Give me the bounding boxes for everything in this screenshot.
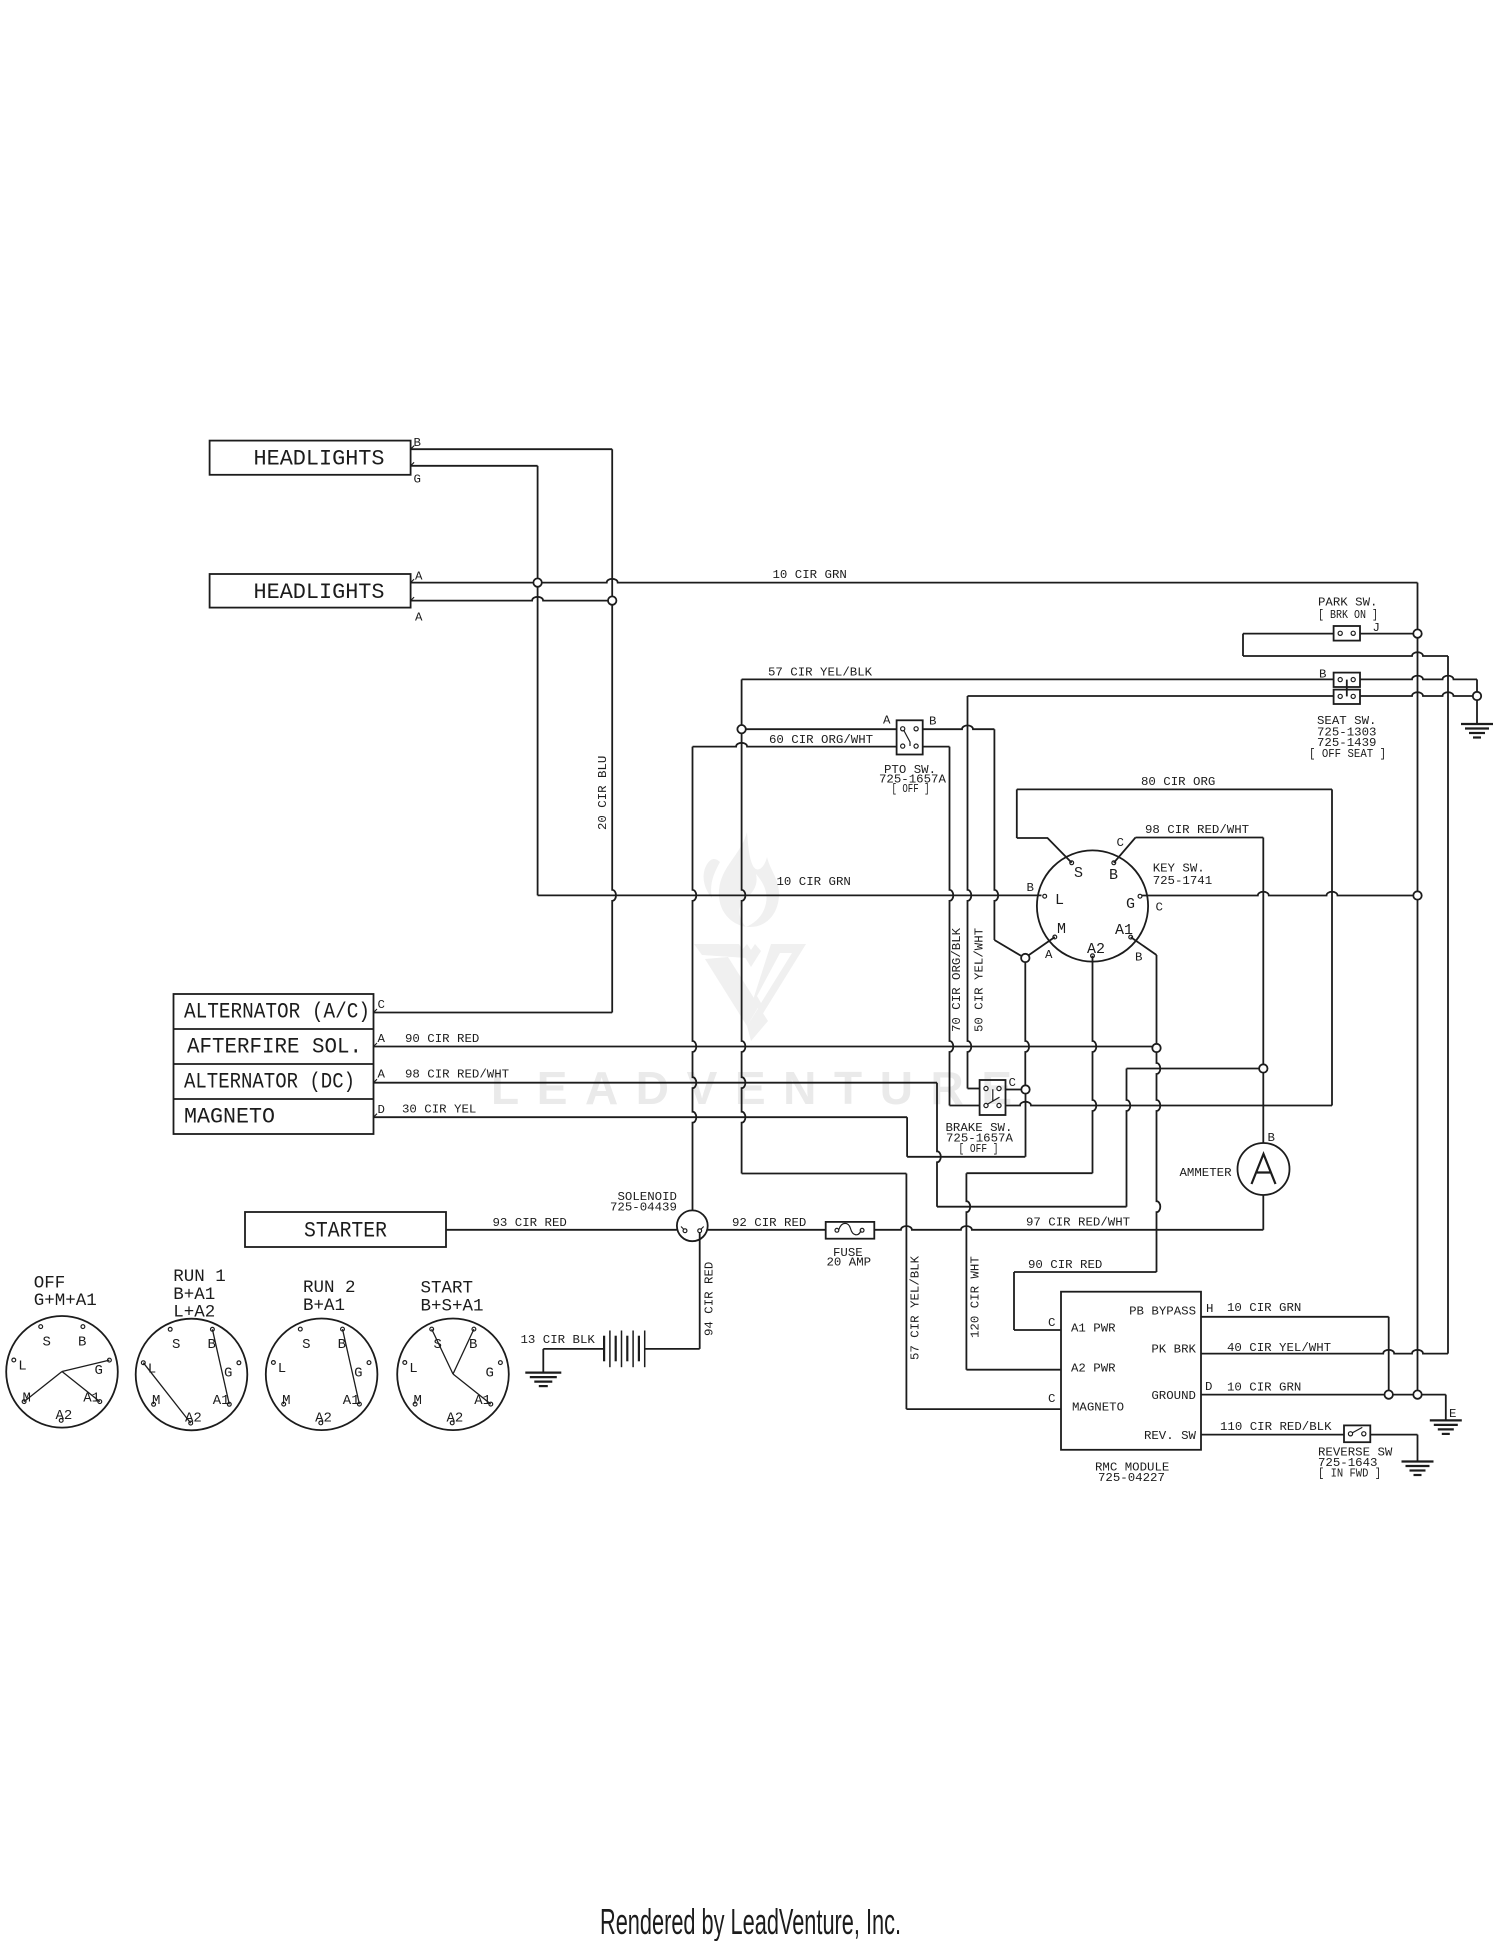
svg-text:GROUND: GROUND	[1151, 1389, 1196, 1403]
svg-text:10 CIR GRN: 10 CIR GRN	[773, 568, 847, 582]
wire PTO lower-left lead (hop x741.6)	[693, 743, 897, 747]
svg-text:M: M	[282, 1393, 290, 1409]
key position diagram START	[397, 1319, 509, 1431]
wire 57 CIR YEL/BLK lower drop	[905, 1174, 907, 1410]
svg-text:L: L	[18, 1359, 26, 1375]
svg-text:L+A2: L+A2	[173, 1303, 215, 1323]
wire 50 CIR YEL/WHT riser	[968, 696, 972, 1089]
node J6	[1473, 692, 1481, 700]
svg-text:G+M+A1: G+M+A1	[34, 1291, 97, 1311]
wire 98 riser x1126.5	[1127, 1069, 1131, 1207]
seat switch SEAT SW.	[1334, 673, 1360, 687]
wire reverse ground drop	[1417, 1435, 1419, 1462]
node J8	[1152, 1044, 1160, 1052]
svg-text:L: L	[1055, 892, 1064, 909]
wire 70 CIR ORG/BLK riser	[950, 747, 954, 1106]
svg-text:725-04227: 725-04227	[1098, 1471, 1165, 1485]
wire 10 CIR GRN top run	[542, 579, 1418, 583]
wire 30 CIR YEL link under brake	[907, 1156, 1025, 1158]
svg-text:S: S	[1074, 865, 1083, 882]
wire park switch left drop	[1242, 634, 1244, 656]
svg-text:D: D	[378, 1103, 385, 1117]
node J12	[1021, 1085, 1029, 1093]
node J10	[1413, 1390, 1421, 1398]
svg-text:93 CIR RED: 93 CIR RED	[493, 1216, 567, 1230]
wire headlight1 pin B	[411, 448, 613, 450]
node J11	[1385, 1390, 1393, 1398]
svg-text:725-04439: 725-04439	[610, 1201, 677, 1215]
svg-text:A2: A2	[315, 1410, 332, 1426]
svg-text:57 CIR YEL/BLK: 57 CIR YEL/BLK	[909, 1255, 923, 1360]
svg-text:94 CIR RED: 94 CIR RED	[703, 1262, 717, 1336]
wire 90 CIR RED run	[374, 1046, 1153, 1048]
brake switch BRAKE SW. 725-1657A [OFF]	[980, 1080, 1006, 1115]
svg-text:60 CIR ORG/WHT: 60 CIR ORG/WHT	[769, 733, 873, 747]
svg-text:S: S	[43, 1334, 51, 1350]
node J3	[1413, 629, 1421, 637]
wire solenoid feed riser x692.5	[693, 747, 697, 1211]
svg-text:50 CIR YEL/WHT: 50 CIR YEL/WHT	[973, 928, 987, 1032]
wire 60 CIR ORG/WHT to PTO A	[746, 728, 897, 730]
svg-text:E: E	[1449, 1407, 1456, 1421]
svg-text:A: A	[415, 570, 423, 584]
svg-text:97 CIR RED/WHT: 97 CIR RED/WHT	[1026, 1216, 1130, 1230]
svg-text:10 CIR GRN: 10 CIR GRN	[1227, 1381, 1301, 1395]
wire 80 CIR ORG	[1017, 788, 1332, 790]
svg-text:G: G	[486, 1365, 494, 1381]
svg-text:70 CIR ORG/BLK: 70 CIR ORG/BLK	[950, 927, 964, 1032]
wire 90 CIR RED drop to A1 PWR	[1013, 1272, 1015, 1330]
key position diagram RUN 1	[136, 1319, 248, 1431]
wire MAGNETO lead	[906, 1408, 1061, 1410]
wire PTO B lead (hop x967.5)	[923, 725, 995, 729]
ground ground E	[1430, 1419, 1462, 1421]
svg-text:20 AMP: 20 AMP	[827, 1256, 872, 1270]
svg-text:G: G	[224, 1366, 232, 1382]
park switch PARK SW. [BRK ON]	[1334, 626, 1360, 641]
svg-text:G: G	[414, 473, 421, 487]
svg-text:L: L	[409, 1361, 417, 1377]
RMC module 725-04227	[1061, 1292, 1201, 1450]
wire REV SW lead	[1201, 1434, 1344, 1436]
wire key A1 diagonal	[1131, 937, 1157, 955]
ammeter	[1238, 1143, 1290, 1195]
svg-text:C: C	[1009, 1076, 1016, 1090]
wire 13 CIR BLK ground drop	[542, 1349, 544, 1373]
svg-text:10 CIR GRN: 10 CIR GRN	[1227, 1301, 1301, 1315]
node J9	[1259, 1064, 1267, 1072]
node J1	[533, 578, 541, 586]
wire ammeter bottom lead	[1262, 1195, 1264, 1230]
svg-text:Rendered by LeadVenture, Inc.: Rendered by LeadVenture, Inc.	[600, 1901, 901, 1941]
svg-text:ALTERNATOR (A/C): ALTERNATOR (A/C)	[184, 1000, 370, 1025]
wire headlight1 pin B drop	[611, 449, 613, 596]
svg-text:HEADLIGHTS: HEADLIGHTS	[254, 580, 385, 605]
svg-text:[ IN FWD ]: [ IN FWD ]	[1318, 1467, 1381, 1481]
svg-text:A: A	[378, 1068, 386, 1082]
wire PTO-B drop diagonal	[994, 940, 1022, 957]
wire 93 CIR RED	[446, 1229, 677, 1231]
wire A2 PWR lead	[966, 1369, 1061, 1371]
svg-text:H: H	[1206, 1302, 1213, 1316]
wire A1 bus x1156.5	[1157, 1052, 1161, 1272]
wire 92 CIR RED	[708, 1229, 826, 1231]
svg-text:A2 PWR: A2 PWR	[1071, 1362, 1116, 1376]
wire 98 CIR RED/WHT top	[1136, 837, 1264, 839]
svg-text:B: B	[1135, 951, 1142, 965]
wire GROUND lead b	[1393, 1394, 1413, 1396]
wire 20 CIR BLU vertical	[612, 605, 616, 1013]
svg-text:M: M	[152, 1393, 160, 1409]
wire A1 drop	[1156, 955, 1158, 1044]
wire GROUND lead a	[1201, 1394, 1385, 1396]
wire 57 CIR YEL/BLK link	[742, 1173, 907, 1175]
svg-text:A1: A1	[1115, 922, 1133, 939]
node J5	[1413, 891, 1421, 899]
wire lead to key S	[1017, 838, 1072, 863]
wire 30 CIR YEL corner drop	[906, 1117, 908, 1157]
wire park switch left lead	[1243, 633, 1334, 635]
wire right bus x1417.5 (park to keyline)	[1417, 638, 1419, 892]
svg-text:A1 PWR: A1 PWR	[1071, 1322, 1116, 1336]
wire headlight2 pin A upper	[411, 582, 534, 584]
wire PB BYPASS lead	[1201, 1316, 1389, 1318]
wire seat sw lower right lead	[1360, 692, 1473, 696]
svg-text:C: C	[1117, 836, 1124, 850]
svg-text:AFTERFIRE SOL.: AFTERFIRE SOL.	[187, 1035, 362, 1060]
svg-text:MAGNETO: MAGNETO	[1072, 1401, 1124, 1415]
svg-text:L: L	[278, 1361, 286, 1377]
svg-text:[ OFF ]: [ OFF ]	[892, 782, 930, 796]
svg-text:A: A	[415, 611, 423, 625]
svg-text:B: B	[78, 1334, 86, 1350]
solenoid SOLENOID 725-04439	[677, 1210, 708, 1241]
wire key G lead to right bus	[1142, 892, 1413, 896]
svg-text:PK BRK: PK BRK	[1151, 1343, 1196, 1357]
ground reverse ground	[1402, 1460, 1434, 1462]
svg-text:98 CIR RED/WHT: 98 CIR RED/WHT	[405, 1068, 509, 1082]
svg-text:S: S	[302, 1337, 310, 1353]
svg-text:B: B	[414, 436, 421, 450]
svg-text:M: M	[414, 1393, 422, 1409]
wire ammeter top lead	[1262, 1073, 1264, 1143]
svg-text:90 CIR RED: 90 CIR RED	[1028, 1258, 1102, 1272]
svg-text:A2: A2	[447, 1410, 464, 1426]
wire A1 PWR lead	[1014, 1329, 1061, 1331]
svg-text:HEADLIGHTS: HEADLIGHTS	[254, 447, 385, 472]
svg-text:30 CIR YEL: 30 CIR YEL	[402, 1103, 476, 1117]
svg-text:A1: A1	[83, 1390, 100, 1406]
svg-text:[ OFF ]: [ OFF ]	[959, 1142, 999, 1156]
svg-text:B+A1: B+A1	[303, 1296, 345, 1316]
ground battery ground	[525, 1371, 561, 1373]
ground seat switch ground	[1461, 723, 1493, 725]
svg-text:A: A	[883, 714, 891, 728]
svg-text:92 CIR RED: 92 CIR RED	[732, 1216, 806, 1230]
wire reverse sw right lead	[1370, 1434, 1417, 1436]
wire 94 CIR RED drop	[699, 1233, 701, 1349]
svg-text:S: S	[434, 1337, 442, 1353]
svg-text:D: D	[1205, 1380, 1212, 1394]
svg-text:ALTERNATOR (DC): ALTERNATOR (DC)	[184, 1070, 355, 1095]
svg-text:20 CIR BLU: 20 CIR BLU	[596, 756, 610, 830]
svg-text:10 CIR GRN: 10 CIR GRN	[777, 875, 851, 889]
svg-text:110 CIR RED/BLK: 110 CIR RED/BLK	[1220, 1420, 1332, 1434]
wire PTO B drop	[994, 729, 998, 940]
wire brake upper-left lead	[968, 1088, 980, 1090]
svg-text:G: G	[354, 1365, 362, 1381]
wire 30 CIR YEL run	[374, 1116, 908, 1118]
svg-text:725-1741: 725-1741	[1153, 874, 1213, 888]
watermark logo flame	[704, 832, 779, 927]
wire right bus x1417.5 lower	[1417, 900, 1419, 1391]
node J2	[608, 596, 616, 604]
wire 57 CIR YEL/BLK to seat sw	[742, 678, 1334, 680]
PTO switch PTO SW. 725-1657A [OFF]	[897, 720, 923, 754]
wire 98 drop x937	[937, 1083, 941, 1207]
fuse FUSE 20 AMP	[826, 1222, 875, 1239]
wire brake lower-left lead	[950, 1105, 980, 1107]
svg-text:PB BYPASS: PB BYPASS	[1129, 1305, 1196, 1319]
wire GROUND lead c	[1422, 1394, 1446, 1396]
wire right bus x1448	[1447, 656, 1449, 1354]
wire seat right drop	[1476, 679, 1478, 691]
svg-text:B: B	[1268, 1131, 1275, 1145]
svg-text:AMMETER: AMMETER	[1180, 1166, 1233, 1180]
svg-text:C: C	[378, 998, 385, 1012]
wire brake upper-right lead	[1006, 1089, 1022, 1091]
wire 57 CIR YEL/BLK long drop	[742, 733, 746, 1173]
wire 40 CIR YEL/WHT lead	[1201, 1350, 1448, 1354]
wire seat sw lower lead from x967.5	[968, 695, 1334, 697]
wire 98 link low	[937, 1206, 1127, 1208]
svg-text:M: M	[1057, 921, 1066, 938]
key position diagram RUN 2	[266, 1319, 378, 1431]
svg-text:S: S	[172, 1337, 180, 1353]
wire headlight1 pin G	[411, 465, 538, 467]
svg-text:MAGNETO: MAGNETO	[184, 1105, 275, 1130]
battery / coil symbol	[603, 1336, 605, 1362]
svg-text:A1: A1	[474, 1393, 491, 1409]
svg-text:C: C	[1048, 1316, 1055, 1330]
svg-text:120 CIR WHT: 120 CIR WHT	[969, 1256, 983, 1338]
svg-text:[ BRK ON ]: [ BRK ON ]	[1318, 608, 1378, 622]
engine connector block (alternators / afterfire / magneto)	[174, 994, 374, 1134]
wire 94 to battery	[645, 1348, 700, 1350]
wire 57 top drop to J4	[741, 679, 743, 724]
svg-text:C: C	[1156, 901, 1163, 915]
svg-text:A: A	[378, 1032, 386, 1046]
watermark V mark	[694, 944, 806, 1041]
reverse switch REVERSE SW 725-1643 [IN FWD]	[1344, 1425, 1370, 1442]
wire headlight2 pin A lower (hop x537.6)	[411, 597, 608, 601]
wire seat sw upper right lead	[1360, 676, 1477, 680]
key position diagram OFF	[6, 1316, 118, 1428]
wire seat ground drop	[1476, 700, 1478, 724]
svg-text:[ OFF SEAT ]: [ OFF SEAT ]	[1309, 747, 1386, 761]
svg-text:REV. SW: REV. SW	[1144, 1429, 1197, 1443]
starter box	[245, 1212, 446, 1247]
svg-text:STARTER: STARTER	[304, 1219, 387, 1244]
node J7	[1021, 954, 1029, 962]
svg-text:C: C	[1048, 1392, 1055, 1406]
wire ground E drop	[1445, 1395, 1447, 1421]
svg-text:A: A	[1045, 948, 1053, 962]
wire 10 CIR GRN riser to key L	[537, 587, 539, 896]
wire PTO lower-right lead	[923, 746, 950, 748]
wire 98 link mid	[1127, 1068, 1260, 1070]
svg-text:B: B	[469, 1337, 477, 1353]
wire key M diagonal	[1028, 937, 1054, 955]
wire park switch lower lead (hops x1417.5)	[1243, 652, 1448, 656]
wire riser x1332 to 80 CIR ORG	[1331, 789, 1333, 1105]
headlights lamp 1	[210, 441, 411, 475]
svg-text:98 CIR RED/WHT: 98 CIR RED/WHT	[1145, 823, 1249, 837]
wire 10 CIR GRN right drop to park	[1417, 583, 1419, 630]
svg-text:G: G	[95, 1363, 103, 1379]
node J4	[737, 725, 745, 733]
wire 120 CIR WHT link	[966, 1172, 1092, 1174]
wire headlight1 pin G drop	[537, 466, 539, 579]
svg-text:A2: A2	[1087, 941, 1105, 958]
wire alternator A/C lead (20 CIR BLU)	[374, 1012, 613, 1014]
wire 13 CIR BLK	[543, 1348, 604, 1350]
wire brake C drop	[1025, 1094, 1027, 1157]
svg-text:57 CIR YEL/BLK: 57 CIR YEL/BLK	[768, 666, 873, 680]
wire 90 CIR RED low	[1014, 1271, 1157, 1273]
wire brake lower-right long lead	[1006, 1102, 1333, 1106]
svg-text:B: B	[1109, 867, 1118, 884]
wire PB BYPASS drop	[1388, 1317, 1390, 1391]
wire 10 CIR GRN main run to key L	[538, 894, 1042, 896]
wire key A2 drop	[1093, 956, 1097, 1173]
svg-text:B+S+A1: B+S+A1	[421, 1296, 484, 1316]
svg-text:13 CIR BLK: 13 CIR BLK	[521, 1333, 596, 1347]
wire key B diagonal	[1114, 838, 1136, 863]
svg-text:80 CIR ORG: 80 CIR ORG	[1141, 775, 1215, 789]
wire 80 CIR ORG left drop	[1016, 789, 1018, 838]
wire 98 CIR RED/WHT run	[374, 1082, 938, 1084]
svg-text:90 CIR RED: 90 CIR RED	[405, 1032, 479, 1046]
svg-text:A2: A2	[56, 1408, 73, 1424]
wire M drop to brake C	[1025, 962, 1029, 1085]
wire 97 CIR RED/WHT	[874, 1226, 1263, 1230]
svg-text:B: B	[929, 715, 936, 729]
svg-text:B: B	[1027, 881, 1034, 895]
svg-text:G: G	[1126, 896, 1135, 913]
wire 120 CIR WHT drop	[966, 1173, 970, 1370]
wire 98 drop to ammeter junction	[1262, 838, 1264, 1065]
headlights lamp 2	[210, 574, 411, 608]
wire park switch right lead	[1360, 633, 1413, 635]
key switch KEY SW. 725-1741	[1037, 850, 1148, 961]
svg-text:M: M	[23, 1390, 31, 1406]
